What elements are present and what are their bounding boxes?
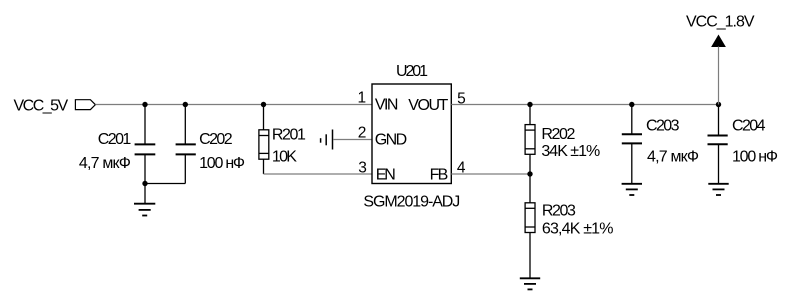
wire GND pin2	[333, 139, 372, 141]
svg-text:VCC_5V: VCC_5V	[14, 98, 69, 115]
wire main left (tag to VIN pin1)	[95, 104, 372, 106]
op IC U201 box	[372, 84, 451, 184]
svg-text:R201: R201	[272, 127, 306, 144]
wire VCC arrow down to rail	[718, 47, 720, 105]
svg-text:4,7 мкФ: 4,7 мкФ	[647, 149, 699, 166]
svg-text:VIN: VIN	[375, 97, 399, 114]
capacitor C201	[135, 105, 156, 184]
svg-text:C203: C203	[646, 118, 680, 135]
svg-text:34K ±1%: 34K ±1%	[541, 143, 600, 160]
svg-text:100 нФ: 100 нФ	[199, 155, 245, 172]
node junction C202 top	[183, 102, 188, 107]
ground (under C204)	[708, 184, 728, 195]
node junction cap bottom	[142, 181, 147, 186]
svg-text:3: 3	[358, 159, 367, 176]
capacitor C202	[176, 105, 196, 184]
ground (under C201/C202)	[134, 204, 155, 216]
svg-text:R202: R202	[541, 126, 575, 143]
node junction C204/VCC top	[716, 102, 721, 107]
power arrow VCC_1.8V	[712, 36, 725, 47]
resistor R203	[525, 174, 535, 278]
svg-text:VCC_1.8V: VCC_1.8V	[686, 14, 755, 31]
ground (under C203)	[622, 184, 642, 195]
wire FB pin4 to divider	[451, 173, 530, 175]
svg-text:FB: FB	[430, 167, 449, 184]
svg-text:100 нФ: 100 нФ	[732, 149, 778, 166]
node junction C201 top	[142, 102, 147, 107]
svg-text:1: 1	[358, 90, 367, 107]
node junction R201 top	[261, 102, 266, 107]
wire R201 bottom to EN pin3	[264, 173, 373, 175]
capacitor C204	[708, 105, 728, 184]
svg-text:R203: R203	[542, 203, 576, 220]
svg-text:10K: 10K	[272, 149, 297, 166]
svg-text:2: 2	[358, 125, 367, 142]
svg-text:C202: C202	[199, 131, 233, 148]
svg-text:VOUT: VOUT	[408, 97, 448, 114]
svg-text:63,4K ±1%: 63,4K ±1%	[542, 221, 614, 238]
svg-text:EN: EN	[376, 167, 396, 184]
wire VOUT pin5 to C204	[451, 104, 718, 106]
svg-text:4,7 мкФ: 4,7 мкФ	[79, 155, 131, 172]
svg-text:GND: GND	[375, 132, 408, 149]
ground (under R203)	[520, 278, 540, 289]
node junction C203 top	[629, 102, 634, 107]
wire C201/C202 bottom interconnect	[145, 183, 185, 185]
wire to ground left	[144, 184, 146, 204]
resistor R202	[525, 105, 535, 175]
svg-text:C204: C204	[732, 118, 766, 135]
resistor R201	[259, 105, 269, 175]
node junction FB	[527, 171, 532, 176]
svg-text:U201: U201	[396, 63, 428, 80]
node junction R202 top	[527, 102, 532, 107]
port tag VCC_5V	[75, 100, 95, 110]
svg-text:SGM2019-ADJ: SGM2019-ADJ	[363, 193, 460, 210]
svg-text:C201: C201	[98, 131, 132, 148]
capacitor C203	[622, 105, 642, 184]
ground (rotated, at GND pin2)	[321, 130, 333, 150]
